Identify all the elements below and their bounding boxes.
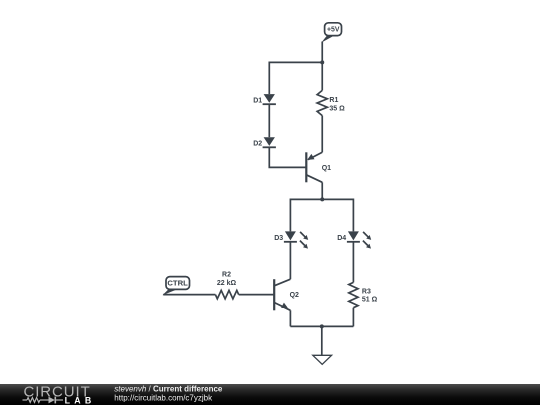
LED D3 [274,231,308,248]
wire R2 to Q2 base [239,294,275,296]
svg-text:51 Ω: 51 Ω [362,296,378,303]
net flag +5V [321,23,341,43]
resistor R3 [349,242,378,327]
svg-text:Q1: Q1 [322,165,331,172]
wire D1 to D2 [268,104,270,137]
svg-text:LAB: LAB [65,396,96,405]
svg-text:35 Ω: 35 Ω [329,105,345,112]
node junction bottom [320,324,324,328]
svg-text:R3: R3 [362,288,371,295]
svg-text:+5V: +5V [327,27,340,34]
node junction LED rail [320,197,324,201]
logo schematic wire [23,397,64,404]
transistor Q1 (PNP) [306,152,331,182]
wire bottom rail [290,325,353,327]
LED D4 [337,231,371,248]
wire +5V to junction [321,42,323,63]
svg-text:D3: D3 [274,235,283,242]
resistor R1 [317,62,345,152]
ground [313,326,332,364]
wire top rail [269,62,322,94]
wire LED top rail [290,199,353,231]
transistor Q2 (NPN) [274,279,299,310]
net flag CTRL [162,277,189,296]
wire CTRL to R2 [163,294,215,296]
svg-text:http://circuitlab.com/c7yzjbk: http://circuitlab.com/c7yzjbk [114,393,213,402]
svg-text:22 kΩ: 22 kΩ [217,280,237,287]
resistor R2 [215,272,238,299]
diode D2 [253,137,276,147]
svg-text:CTRL: CTRL [167,279,188,288]
node junction top [320,60,324,64]
wire D3 to Q2 collector [289,242,291,279]
svg-text:R1: R1 [329,97,338,104]
svg-text:stevenvh / Current difference: stevenvh / Current difference [114,385,223,394]
diode D1 [253,94,276,104]
wire Q2 emitter down [289,310,291,326]
svg-text:D1: D1 [253,97,262,104]
svg-text:R2: R2 [222,272,231,279]
wire Q1 collector down [321,182,323,199]
svg-text:Q2: Q2 [290,292,299,299]
svg-text:D2: D2 [253,141,262,148]
svg-text:D4: D4 [337,235,346,242]
wire D2 to Q1 base [269,147,306,167]
